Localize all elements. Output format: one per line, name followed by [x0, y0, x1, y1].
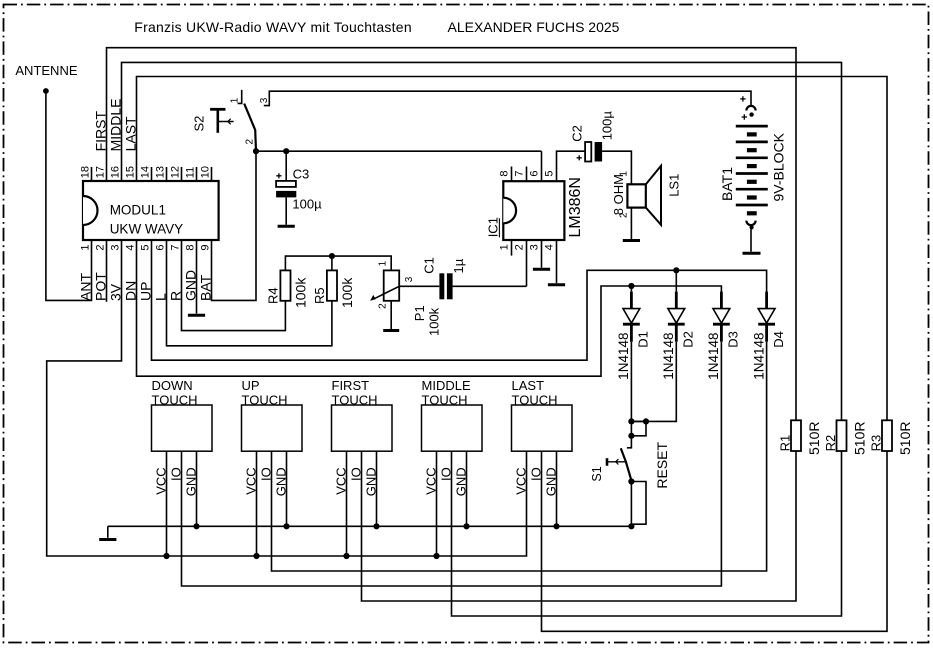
svg-text:3: 3: [109, 244, 121, 250]
svg-text:C2: C2: [570, 125, 585, 142]
svg-text:IO: IO: [439, 467, 454, 481]
svg-text:1µ: 1µ: [451, 258, 466, 273]
svg-text:LAST: LAST: [512, 378, 545, 393]
svg-text:TOUCH: TOUCH: [242, 392, 288, 407]
svg-text:100µ: 100µ: [599, 111, 614, 141]
svg-text:510R: 510R: [851, 422, 867, 455]
svg-text:100k: 100k: [293, 277, 309, 308]
svg-text:2: 2: [514, 244, 526, 250]
svg-text:17: 17: [94, 166, 106, 178]
svg-text:RESET: RESET: [654, 441, 670, 488]
svg-text:BAT1: BAT1: [719, 167, 735, 201]
svg-text:IO: IO: [169, 467, 184, 481]
svg-text:2: 2: [377, 303, 388, 309]
svg-text:IO: IO: [349, 467, 364, 481]
svg-text:6: 6: [154, 244, 166, 250]
svg-text:DOWN: DOWN: [152, 378, 193, 393]
svg-text:18: 18: [79, 166, 91, 178]
svg-text:15: 15: [124, 166, 136, 178]
svg-text:8 OHM: 8 OHM: [611, 174, 626, 215]
svg-text:4: 4: [124, 244, 136, 250]
svg-text:13: 13: [154, 166, 166, 178]
svg-text:8: 8: [499, 170, 511, 176]
svg-text:1N4148: 1N4148: [706, 333, 721, 380]
svg-text:IO: IO: [259, 467, 274, 481]
svg-text:3: 3: [259, 97, 270, 103]
svg-text:R4: R4: [265, 287, 280, 304]
svg-text:LM386N: LM386N: [567, 177, 584, 237]
svg-text:MODUL1: MODUL1: [110, 202, 166, 217]
svg-text:9V-BLOCK: 9V-BLOCK: [771, 132, 787, 201]
svg-text:12: 12: [169, 166, 181, 178]
svg-text:3: 3: [404, 276, 415, 282]
svg-text:TOUCH: TOUCH: [422, 392, 468, 407]
svg-text:TOUCH: TOUCH: [512, 392, 558, 407]
svg-text:UKW WAVY: UKW WAVY: [110, 222, 184, 237]
svg-text:LS1: LS1: [666, 174, 681, 197]
svg-text:1: 1: [499, 244, 511, 250]
svg-text:TOUCH: TOUCH: [152, 392, 198, 407]
svg-text:D2: D2: [681, 331, 696, 348]
svg-text:2: 2: [94, 244, 106, 250]
svg-text:1: 1: [79, 244, 91, 250]
svg-text:P1: P1: [412, 305, 427, 321]
svg-text:10: 10: [199, 166, 211, 178]
svg-text:2: 2: [244, 139, 255, 145]
svg-text:5: 5: [544, 170, 556, 176]
svg-text:9: 9: [199, 244, 211, 250]
svg-text:ANT: ANT: [77, 273, 93, 301]
svg-text:6: 6: [529, 170, 541, 176]
svg-text:16: 16: [109, 166, 121, 178]
svg-text:VCC: VCC: [514, 467, 529, 494]
svg-text:IC1: IC1: [486, 217, 501, 237]
svg-text:FIRST: FIRST: [332, 378, 370, 393]
svg-text:14: 14: [139, 166, 151, 178]
svg-text:C1: C1: [422, 257, 437, 274]
svg-text:R5: R5: [312, 287, 327, 304]
svg-text:4: 4: [544, 244, 556, 250]
svg-text:S2: S2: [191, 116, 206, 132]
svg-text:D3: D3: [726, 331, 741, 348]
svg-text:TOUCH: TOUCH: [332, 392, 378, 407]
svg-text:UP: UP: [242, 378, 260, 393]
svg-text:8: 8: [184, 244, 196, 250]
svg-text:100k: 100k: [427, 307, 442, 336]
svg-text:D4: D4: [771, 331, 786, 348]
svg-text:D1: D1: [636, 331, 651, 348]
svg-text:5: 5: [139, 244, 151, 250]
svg-text:Franzis UKW-Radio WAVY mit Tou: Franzis UKW-Radio WAVY mit Touchtasten: [134, 19, 412, 35]
svg-text:510R: 510R: [897, 422, 913, 455]
svg-text:100k: 100k: [339, 277, 355, 308]
svg-text:R3: R3: [869, 435, 884, 452]
svg-text:1N4148: 1N4148: [751, 333, 766, 380]
svg-text:C3: C3: [293, 167, 310, 182]
svg-text:7: 7: [514, 170, 526, 176]
svg-text:ALEXANDER FUCHS 2025: ALEXANDER FUCHS 2025: [448, 19, 620, 35]
svg-text:1: 1: [230, 97, 241, 103]
svg-text:MIDDLE: MIDDLE: [422, 378, 471, 393]
svg-text:S1: S1: [590, 466, 604, 481]
svg-text:R2: R2: [823, 435, 838, 452]
svg-text:R1: R1: [778, 435, 793, 452]
svg-text:7: 7: [169, 244, 181, 250]
svg-text:100µ: 100µ: [292, 196, 322, 211]
svg-text:IO: IO: [529, 467, 544, 481]
svg-text:1N4148: 1N4148: [661, 333, 676, 380]
svg-text:11: 11: [184, 167, 196, 178]
svg-text:3: 3: [529, 244, 541, 250]
svg-text:1N4148: 1N4148: [616, 333, 631, 380]
svg-text:1: 1: [377, 261, 388, 267]
svg-text:ANTENNE: ANTENNE: [15, 63, 77, 78]
svg-text:510R: 510R: [806, 422, 822, 455]
